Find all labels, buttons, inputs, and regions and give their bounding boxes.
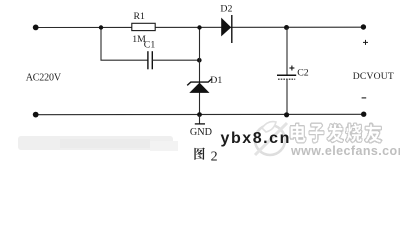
label - output polarity [362, 97, 367, 99]
wire left branch vertical (to C1) [101, 28, 148, 61]
svg-text:www.elecfans.com: www.elecfans.com [290, 144, 400, 158]
node junction C1/D1 x199 y60 [197, 58, 202, 63]
svg-text:DCVOUT: DCVOUT [353, 71, 394, 82]
caption 图 2 [194, 148, 217, 165]
svg-text:D1: D1 [210, 75, 222, 86]
svg-text:C1: C1 [144, 40, 156, 51]
node junction bottom rail x199 [197, 112, 202, 117]
capacitor C2 polarized [277, 75, 296, 79]
wire C2 branch lower [286, 79, 288, 115]
node junction top-left x101 [99, 25, 103, 29]
node junction bottom rail x286 [284, 112, 289, 117]
svg-text:R1: R1 [134, 11, 146, 22]
diode D2 [221, 15, 232, 43]
wire C2 branch upper [286, 28, 288, 75]
node AC input top terminal [33, 25, 39, 31]
wire top rail [36, 26, 364, 28]
capacitor C1 [148, 51, 152, 69]
svg-text:C2: C2 [297, 68, 309, 79]
wire D1 branch vertical [199, 28, 201, 115]
node DC output + terminal [361, 24, 366, 29]
wire C1 right to node [152, 59, 199, 61]
watermark text 电子发烧友 [290, 123, 383, 144]
svg-text:D2: D2 [220, 4, 232, 15]
diode D1 zener [187, 79, 212, 93]
ground GND [195, 115, 205, 124]
node DC output - terminal [361, 112, 366, 117]
svg-text:ybx8.cn: ybx8.cn [221, 130, 291, 147]
node AC input bottom terminal [33, 112, 39, 118]
svg-text:GND: GND [190, 127, 212, 138]
resistor R1 [132, 23, 155, 30]
node junction top rail x199 [197, 25, 201, 29]
label + output polarity [363, 40, 368, 45]
svg-text:AC220V: AC220V [26, 73, 62, 84]
wire bottom rail [36, 113, 364, 115]
blurred watermark smudge bottom-left [18, 136, 178, 151]
label + of C2 [289, 66, 294, 71]
watermark logo circle (ybx8) [255, 122, 287, 155]
svg-text:2: 2 [211, 149, 218, 164]
node junction top rail x286 (C2) [284, 25, 289, 30]
